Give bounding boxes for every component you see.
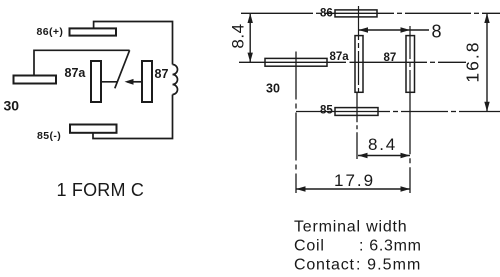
terminal pad 30 bbox=[14, 76, 57, 84]
contact pad 87a bbox=[91, 61, 101, 102]
svg-text:Terminal width: Terminal width bbox=[294, 219, 407, 236]
svg-text:Contact: Contact bbox=[294, 257, 355, 274]
terminal pad 30 (bottom view) bbox=[265, 58, 327, 66]
svg-text:Coil: Coil bbox=[294, 238, 325, 255]
wire 87a fixed contact stub bbox=[101, 81, 118, 83]
svg-text:85(-): 85(-) bbox=[37, 130, 61, 142]
centerline row 86 bbox=[241, 12, 500, 14]
dimension 8.4 (left, vertical) bbox=[229, 13, 253, 62]
svg-text:1 FORM C: 1 FORM C bbox=[57, 180, 145, 200]
centerline 87 column (upper stub) bbox=[409, 26, 411, 92]
label 87 bbox=[155, 67, 169, 81]
svg-text:86: 86 bbox=[320, 8, 333, 20]
svg-text:16.8: 16.8 bbox=[463, 41, 483, 83]
svg-text:87a: 87a bbox=[330, 51, 350, 63]
svg-text:87: 87 bbox=[384, 52, 397, 64]
terminal pad 87a (bottom view) bbox=[355, 36, 363, 93]
svg-text:: 9.5mm: : 9.5mm bbox=[356, 257, 422, 274]
label 85(-) bbox=[37, 130, 61, 142]
svg-text:8.4: 8.4 bbox=[368, 135, 397, 154]
wire coil to 85 pad (bottom) bbox=[93, 95, 173, 139]
svg-text:87a: 87a bbox=[65, 66, 87, 80]
centerline 30 column (vertical) bbox=[295, 52, 297, 194]
coil (relay winding) bbox=[173, 65, 178, 95]
caption 1 FORM C bbox=[57, 180, 145, 200]
svg-text:8.4: 8.4 bbox=[229, 23, 248, 48]
contact pad 87 bbox=[142, 61, 152, 102]
label 87a bbox=[65, 66, 87, 80]
svg-text:30: 30 bbox=[4, 98, 20, 114]
dimension 17.9 bbox=[296, 171, 410, 192]
label 86 (bottom view) bbox=[320, 8, 333, 20]
note: coil terminal width value bbox=[294, 238, 422, 255]
svg-text:85: 85 bbox=[320, 105, 333, 117]
svg-text:: 6.3mm: : 6.3mm bbox=[359, 238, 422, 255]
terminal pad 85 (bottom view) bbox=[335, 108, 378, 116]
dimension 8 (between 87a and 87 columns) bbox=[359, 22, 442, 42]
terminal pad 86 (bottom view) bbox=[335, 10, 377, 17]
note: terminal width heading bbox=[294, 219, 407, 236]
terminal pad 85 bbox=[70, 125, 117, 133]
centerline 87 column (lower) bbox=[409, 92, 411, 193]
label 85 (bottom view) bbox=[320, 105, 333, 117]
centerline 87a column (lower) bbox=[356, 92, 358, 159]
centerline row 30 / 87a / 87 bbox=[239, 61, 466, 63]
label 30 bbox=[4, 98, 20, 114]
wire 86 to coil (top) bbox=[94, 22, 173, 65]
svg-text:8: 8 bbox=[432, 22, 442, 42]
centerline row 85 bbox=[296, 111, 500, 113]
label 86(+) bbox=[37, 26, 64, 38]
switch arm (movable contact) bbox=[115, 50, 130, 88]
label 30 (bottom view) bbox=[266, 82, 280, 96]
label 87a (bottom view) bbox=[330, 51, 350, 63]
label 87 (bottom view) bbox=[384, 52, 397, 64]
svg-text:17.9: 17.9 bbox=[334, 171, 375, 190]
svg-text:30: 30 bbox=[266, 82, 280, 96]
svg-text:87: 87 bbox=[155, 67, 169, 81]
terminal pad 87 (bottom view) bbox=[406, 36, 415, 93]
dimension 8.4 (bottom) bbox=[358, 135, 410, 158]
svg-text:86(+): 86(+) bbox=[37, 26, 64, 38]
arrow 87 contact (normally open) bbox=[125, 79, 143, 85]
dimension 16.8 (right, vertical) bbox=[463, 13, 490, 111]
note: contact terminal width value bbox=[294, 257, 422, 274]
wire 30 to switch pivot bbox=[34, 50, 130, 75]
centerline 87a column (upper) bbox=[358, 6, 360, 92]
terminal pad 86 bbox=[70, 28, 117, 35]
